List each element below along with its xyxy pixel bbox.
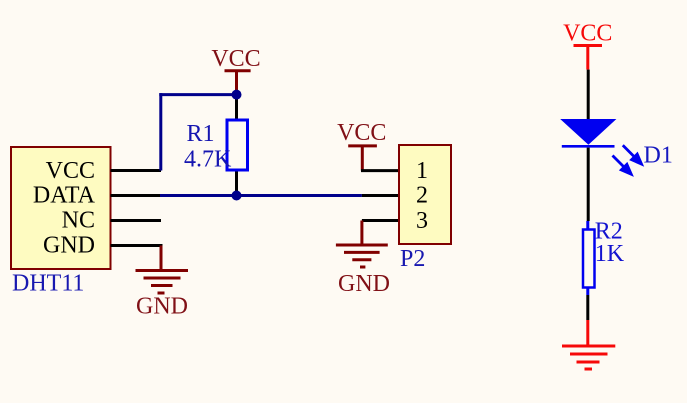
svg-text:VCC: VCC xyxy=(563,21,612,47)
svg-text:1K: 1K xyxy=(595,241,625,267)
svg-text:VCC: VCC xyxy=(46,158,95,184)
svg-text:DATA: DATA xyxy=(33,183,96,209)
svg-text:P2: P2 xyxy=(400,246,425,272)
svg-text:R1: R1 xyxy=(187,121,215,147)
svg-text:GND: GND xyxy=(43,233,95,259)
svg-text:GND: GND xyxy=(338,271,390,297)
svg-text:VCC: VCC xyxy=(337,120,386,146)
svg-text:VCC: VCC xyxy=(211,46,260,72)
svg-text:D1: D1 xyxy=(644,142,673,168)
svg-text:DHT11: DHT11 xyxy=(12,271,84,297)
svg-text:NC: NC xyxy=(62,208,95,234)
svg-text:4.7K: 4.7K xyxy=(184,147,232,173)
svg-text:3: 3 xyxy=(416,208,428,234)
svg-text:1: 1 xyxy=(416,158,428,184)
svg-text:2: 2 xyxy=(416,183,428,209)
svg-text:GND: GND xyxy=(136,294,188,320)
